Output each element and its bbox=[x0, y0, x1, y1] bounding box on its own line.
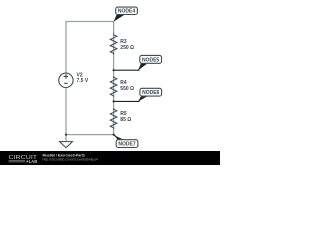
label R5 value bbox=[120, 111, 131, 123]
watermark bar bbox=[0, 151, 220, 165]
wire top horizontal bbox=[66, 21, 114, 23]
resistor R5 bbox=[110, 108, 117, 129]
label R3 value bbox=[120, 39, 134, 51]
svg-text:85 Ω: 85 Ω bbox=[120, 117, 131, 123]
resistor R4 bbox=[110, 76, 117, 97]
label V2 value bbox=[77, 73, 89, 84]
node junction bottom-left bbox=[65, 134, 67, 136]
wire right vertical bbox=[113, 21, 115, 135]
node NODE5 flag bbox=[114, 55, 162, 70]
wire left vertical lower bbox=[65, 88, 67, 135]
svg-text:http://circuitlab.com/c/cuwsks: http://circuitlab.com/c/cuwsks6wkps4 bbox=[43, 158, 99, 162]
svg-text:250 Ω: 250 Ω bbox=[120, 45, 134, 51]
svg-text:NODE7: NODE7 bbox=[118, 142, 135, 148]
ground bbox=[60, 135, 73, 148]
watermark logo CircuitLab bbox=[9, 155, 39, 164]
node NODE7 flag bbox=[113, 134, 137, 147]
node junction NODE6 bbox=[113, 100, 115, 102]
voltage source V2 bbox=[59, 73, 73, 87]
resistor R3 bbox=[110, 34, 117, 55]
node junction NODE7 bbox=[113, 134, 115, 136]
label R4 value bbox=[120, 80, 134, 92]
wire left vertical upper bbox=[65, 21, 67, 73]
node NODE4 flag bbox=[114, 7, 138, 22]
svg-text:NODE4: NODE4 bbox=[118, 9, 135, 15]
node NODE6 flag bbox=[114, 88, 162, 101]
svg-text:550 Ω: 550 Ω bbox=[120, 86, 134, 92]
svg-text:NODE6: NODE6 bbox=[142, 90, 159, 96]
node junction NODE5 bbox=[113, 69, 115, 71]
svg-text:7.5 V: 7.5 V bbox=[77, 78, 89, 84]
wire bottom horizontal bbox=[66, 134, 114, 136]
svg-text:LAB: LAB bbox=[29, 159, 37, 164]
svg-text:NODE5: NODE5 bbox=[142, 57, 159, 63]
